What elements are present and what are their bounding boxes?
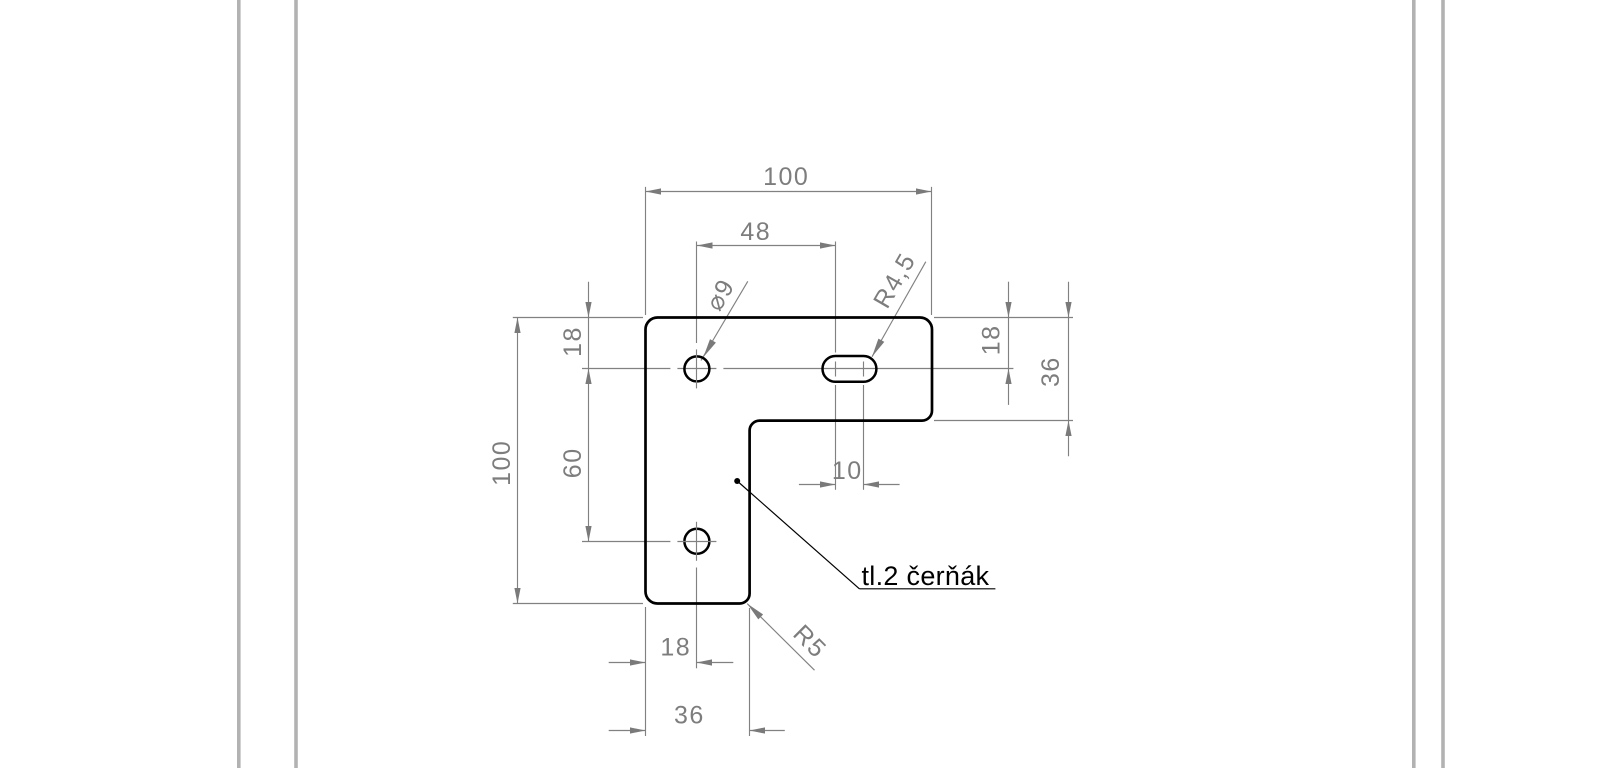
arrow 10 left: [820, 481, 836, 487]
arrow 100 left bottom: [514, 588, 520, 604]
leader line tl.2 diagonal: [737, 481, 859, 589]
centerline horizontal left of bottom hole: [582, 541, 670, 543]
arrow 10 right: [864, 481, 880, 487]
svg-text:36: 36: [674, 702, 705, 730]
svg-text:48: 48: [740, 218, 771, 246]
svg-text:18: 18: [559, 326, 587, 357]
leader line for R5: [747, 604, 814, 671]
arrow 18 bottom right: [697, 659, 713, 665]
arrow 18 right lower (up): [1005, 369, 1011, 385]
extension line slot left center vertical lower: [835, 385, 837, 490]
dimension line 18 bottom left tail: [609, 662, 646, 664]
dimension line 36 bottom left tail: [609, 730, 646, 732]
arrow 36 right upper (down): [1065, 302, 1071, 318]
hole top (circle d9): [684, 356, 709, 381]
crosshair bottom hole vertical: [696, 522, 698, 561]
arrows (gray filled): [514, 188, 1071, 733]
crosshair bottom hole horizontal: [677, 541, 716, 543]
sheet border line right inner: [1412, 0, 1416, 768]
extension line top edge left: [513, 317, 643, 319]
part outline (L-shaped plate, thick black): [646, 318, 933, 604]
extension line arm bottom edge right: [934, 420, 1073, 422]
sheet border line right outer: [1441, 0, 1445, 768]
arrow 48 right: [820, 242, 836, 248]
crosshair top hole vertical: [696, 349, 698, 388]
arrow leader R5: [747, 604, 763, 620]
svg-text:18: 18: [978, 324, 1006, 355]
centerline horizontal from top hole through slot to right dims: [723, 368, 1013, 370]
arrow 48 left: [697, 242, 713, 248]
svg-text:18: 18: [660, 634, 691, 662]
svg-text:60: 60: [559, 447, 587, 478]
arrow leader R4,5: [872, 339, 884, 357]
leader underline tl.2: [859, 588, 995, 590]
arrow 60 left top (up): [585, 369, 591, 385]
arrow 18 right upper (down): [1005, 302, 1011, 318]
svg-text:tl.2 čerňák: tl.2 čerňák: [862, 561, 990, 591]
dimension line 10 left tail: [799, 484, 836, 486]
slot center tick left: [835, 362, 837, 377]
arrow 36 bottom left: [630, 727, 646, 733]
leader line for R4,5: [872, 262, 926, 357]
svg-text:100: 100: [763, 163, 809, 191]
dimension texts (gray): [488, 163, 1065, 730]
extension line right edge above part: [931, 187, 933, 315]
dimension line 18 and 60 left vertical: [588, 282, 590, 542]
extension line bottom edge left: [513, 603, 643, 605]
dimension line 18 bottom right tail: [697, 662, 734, 664]
extension line top edge right: [934, 317, 1073, 319]
slot center tick right: [863, 362, 865, 377]
arrow leader diameter 9: [703, 339, 716, 357]
sheet border line left inner: [294, 0, 298, 768]
crosshair top hole horizontal: [677, 368, 716, 370]
sheet border line left outer: [237, 0, 241, 768]
dimension line 48: [697, 245, 836, 247]
dimension line 18 right vertical: [1008, 282, 1010, 405]
dimension line 100 left vertical: [517, 318, 519, 604]
arrow 36 right lower (up): [1065, 421, 1071, 437]
extension line slot left center vertical upper: [835, 242, 837, 353]
arrow 100 top right: [916, 188, 932, 194]
arrow 100 top left: [646, 188, 662, 194]
dimension line 10 right tail: [864, 484, 900, 486]
arrow 18 bottom left: [630, 659, 646, 665]
arrow 100 left top: [514, 318, 520, 334]
arrow 36 bottom right: [750, 727, 766, 733]
dimension line 36 right vertical: [1068, 282, 1070, 457]
svg-text:36: 36: [1037, 356, 1065, 387]
slot (obround R4,5): [823, 356, 877, 382]
extension line hole vertical below part: [696, 568, 698, 669]
centerline horizontal left of top hole: [582, 368, 670, 370]
arrow 18 left upper (down): [585, 302, 591, 318]
extension line left edge below part: [645, 607, 647, 736]
svg-text:10: 10: [832, 457, 863, 485]
extension line hole vertical above: [696, 242, 698, 344]
extension line lower arm right edge below part: [749, 608, 751, 736]
leader dot for tl.2 note: [734, 478, 740, 484]
dimension line 36 bottom right tail: [750, 730, 785, 732]
dimension line 100 top: [646, 191, 932, 193]
svg-text:100: 100: [488, 440, 516, 486]
extension line left edge above part: [645, 187, 647, 315]
extension line slot right center vertical lower: [863, 385, 865, 490]
leader line for diameter 9: [701, 281, 748, 360]
hole bottom (circle d9): [684, 529, 709, 554]
arrow 60 left bottom (down): [585, 526, 591, 542]
